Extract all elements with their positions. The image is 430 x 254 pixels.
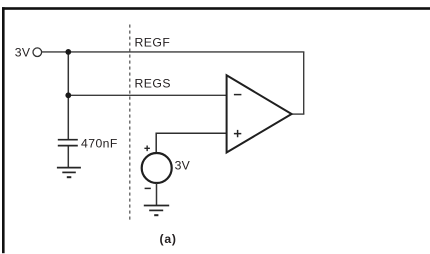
svg-text:3V: 3V [15,45,31,59]
wire output to feedback [291,113,304,115]
capacitor C 470nF top plate [58,139,78,141]
boundary dashed line [129,25,131,222]
input terminal circle [33,48,42,57]
wire capacitor to ground [67,146,69,167]
svg-text:470nF: 470nF [81,137,118,151]
wire left vertical bus [67,52,69,139]
junction dot upper [65,49,71,55]
pin - inverting input mark [234,94,242,96]
ground below source [144,206,169,216]
wire source to ground [156,183,158,206]
capacitor C 470nF bottom plate [58,145,78,147]
ground below capacitor [57,168,81,178]
wire source top corner to op-amp + input [156,133,226,153]
pin + non-inverting input mark [234,130,241,137]
svg-text:REGF: REGF [135,36,171,50]
wire REGF horizontal [68,51,304,53]
wire REGS horizontal [68,94,226,96]
wire terminal to junction [42,51,69,53]
svg-text:3V: 3V [175,159,191,173]
voltage source V 3V circle [142,153,172,183]
junction dot lower [65,92,71,98]
op-amp U1 triangle [227,75,292,152]
wire feedback vertical [303,52,305,114]
svg-text:REGS: REGS [135,76,172,90]
polarity plus mark [144,146,150,152]
svg-text:(a): (a) [160,232,177,246]
polarity minus mark [145,187,151,189]
